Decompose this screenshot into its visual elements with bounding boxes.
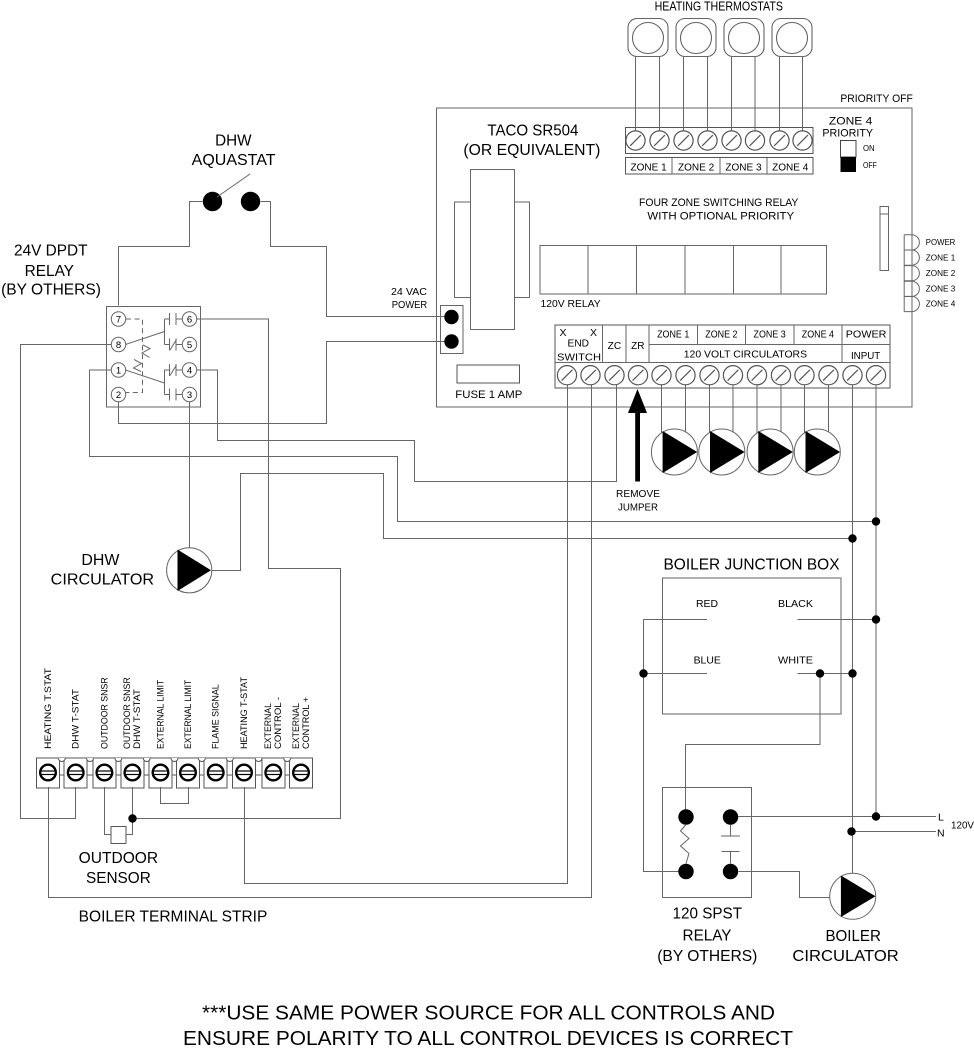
svg-text:POWER: POWER	[846, 329, 887, 340]
fuse F1 1 AMP	[457, 365, 520, 383]
DPDT relay pin 8	[111, 337, 125, 351]
svg-text:ON: ON	[863, 143, 875, 153]
DPDT relay coil actuator (dashed) pins 7-2	[126, 319, 143, 393]
svg-text:ZONE 2: ZONE 2	[678, 162, 715, 173]
24 VAC power terminal block	[441, 306, 464, 354]
wire junction dots	[128, 517, 880, 835]
zone 2 circulator pump	[699, 429, 745, 475]
svg-text:SWITCH: SWITCH	[557, 352, 601, 363]
zone 4 priority switch	[841, 141, 857, 173]
label REMOVE JUMPER	[616, 489, 660, 513]
DPDT relay contact to pin 5	[165, 339, 183, 351]
label TACO SR504 (OR EQUIVALENT)	[463, 122, 600, 158]
boiler circulator pump	[830, 873, 876, 919]
svg-text:POWER: POWER	[392, 300, 428, 311]
svg-text:(OR EQUIVALENT): (OR EQUIVALENT)	[463, 142, 600, 159]
wire: SPST relay to boiler circulator	[739, 872, 831, 898]
svg-text:DHW: DHW	[81, 552, 119, 569]
label DHW CIRCULATOR	[51, 552, 154, 588]
label 24V DPDT RELAY (BY OTHERS)	[1, 242, 101, 298]
svg-text:EXTERNAL LIMIT: EXTERNAL LIMIT	[156, 679, 166, 749]
wire: relay pin 1 to SR504 power input (hot)	[90, 370, 877, 522]
svg-text:ZONE 4: ZONE 4	[926, 300, 956, 309]
svg-text:PRIORITY: PRIORITY	[822, 127, 873, 139]
svg-text:SENSOR: SENSOR	[86, 870, 151, 887]
wire: power input L drop to boiler circulator	[852, 385, 854, 874]
SPST relay terminals	[678, 809, 693, 824]
wire: WHITE lead to SPST relay contact	[686, 674, 821, 811]
svg-text:EXTERNAL: EXTERNAL	[291, 703, 301, 749]
svg-text:ZC: ZC	[608, 340, 622, 352]
label FOUR ZONE SWITCHING RELAY	[639, 197, 799, 223]
svg-text:ZONE 4: ZONE 4	[829, 115, 873, 127]
wire: outdoor sensor right lead	[127, 787, 133, 835]
DPDT relay pin 5	[182, 337, 196, 351]
wire: DHW aquastat right pole to 24VAC + terminal	[261, 202, 446, 317]
svg-text:BLUE: BLUE	[694, 654, 721, 666]
DHW circulator pump	[167, 548, 212, 593]
DHW aquastat switch blade	[217, 174, 250, 197]
thermostat drop wires	[636, 57, 803, 140]
strip header labels	[557, 327, 886, 364]
label L N 120V	[937, 812, 974, 840]
svg-text:WITH OPTIONAL PRIORITY: WITH OPTIONAL PRIORITY	[647, 211, 794, 223]
svg-text:WHITE: WHITE	[778, 654, 813, 666]
svg-text:HEATING T.STAT: HEATING T.STAT	[43, 668, 53, 749]
transformer T1 (24VAC) wide winding	[455, 202, 530, 298]
svg-text:BOILER TERMINAL STRIP: BOILER TERMINAL STRIP	[79, 909, 268, 926]
edge connector	[880, 207, 889, 271]
heating thermostat 2	[676, 19, 716, 57]
DPDT relay armature springs	[142, 345, 150, 358]
svg-text:***USE SAME POWER SOURCE FOR A: ***USE SAME POWER SOURCE FOR ALL CONTROL…	[202, 1003, 775, 1025]
svg-text:OUTDOOR SNSR: OUTDOOR SNSR	[122, 677, 132, 749]
svg-text:POWER: POWER	[926, 238, 956, 247]
label 24 VAC POWER	[391, 287, 428, 311]
svg-text:OFF: OFF	[863, 160, 877, 170]
zone 3 circulator pump	[747, 429, 793, 475]
label 120 SPST RELAY (BY OTHERS)	[657, 906, 757, 965]
wire: boiler strip HEATING T-STAT to end switch X1	[245, 385, 568, 884]
SPST relay coil	[681, 825, 690, 864]
DPDT relay pin 1	[111, 363, 125, 377]
DPDT relay contact to pin 3	[165, 389, 183, 401]
wire: L feed line	[731, 816, 937, 818]
svg-text:6: 6	[187, 314, 192, 325]
wire: junction box WHITE lead	[798, 673, 853, 675]
wire: DHW circulator to SR504 power input (neutral)	[212, 474, 853, 571]
svg-text:AQUASTAT: AQUASTAT	[192, 152, 276, 169]
svg-text:ZONE 4: ZONE 4	[802, 329, 835, 340]
svg-text:OUTDOOR: OUTDOOR	[79, 850, 158, 867]
wire: DHW aquastat left pole to relay pin 7	[119, 202, 203, 306]
wire: power input N drop to L junction	[875, 385, 877, 817]
svg-text:EXTERNAL LIMIT: EXTERNAL LIMIT	[183, 679, 193, 749]
svg-text:2: 2	[116, 390, 121, 401]
svg-text:ZONE 2: ZONE 2	[926, 269, 956, 278]
svg-text:HEATING T-STAT: HEATING T-STAT	[239, 677, 249, 749]
bottom note	[183, 1003, 793, 1051]
LED ZONE 3	[904, 281, 919, 296]
LED labels	[926, 238, 956, 309]
24 VAC power terminals	[444, 310, 458, 324]
DPDT relay pin 7	[111, 312, 125, 326]
thermostat terminal strip (top)	[626, 128, 814, 154]
wire: jumper across EXTERNAL LIMIT terminals	[161, 787, 189, 804]
svg-text:120 VOLT CIRCULATORS: 120 VOLT CIRCULATORS	[684, 350, 807, 361]
DPDT relay pin 3	[182, 387, 196, 401]
svg-text:ZONE 1: ZONE 1	[657, 329, 690, 340]
svg-text:5: 5	[187, 340, 192, 351]
LED ZONE 4	[904, 296, 919, 311]
label ZONE 4 PRIORITY	[822, 115, 873, 139]
heating thermostat 1	[628, 19, 668, 57]
wire: relay pin 3 to DHW circulator	[189, 402, 191, 548]
svg-text:CIRCULATOR: CIRCULATOR	[51, 571, 154, 588]
wire: outdoor sensor left lead	[105, 787, 112, 835]
svg-text:REMOVE: REMOVE	[616, 489, 660, 500]
svg-text:FUSE 1 AMP: FUSE 1 AMP	[455, 389, 522, 401]
label OUTDOOR SENSOR	[79, 850, 158, 887]
zone circulator drop wires	[662, 385, 829, 445]
svg-text:ZONE 1: ZONE 1	[926, 254, 956, 263]
outdoor sensor	[111, 827, 126, 844]
svg-text:EXTERNAL: EXTERNAL	[263, 703, 273, 749]
indicator LED rail	[903, 235, 905, 312]
wire: relay pin 4 to SR504 ZC terminal	[197, 370, 617, 482]
svg-text:CONTROL -: CONTROL -	[273, 697, 283, 749]
svg-text:ZONE 3: ZONE 3	[926, 284, 956, 293]
label BOILER CIRCULATOR	[792, 928, 898, 965]
wire: junction box BLUE lead	[644, 673, 708, 675]
24V DPDT relay box	[107, 307, 201, 408]
boiler strip notches	[58, 758, 290, 762]
svg-text:120V: 120V	[951, 821, 974, 832]
svg-text:FOUR ZONE SWITCHING RELAY: FOUR ZONE SWITCHING RELAY	[639, 197, 799, 209]
DPDT relay pole 1 blade (pin 8)	[126, 319, 165, 345]
SPST relay contact	[721, 825, 740, 864]
svg-text:7: 7	[116, 314, 121, 325]
wire: 24VAC - terminal to relay pin 2	[119, 342, 446, 424]
svg-text:HEATING THERMOSTATS: HEATING THERMOSTATS	[655, 0, 783, 13]
svg-text:ZONE 4: ZONE 4	[772, 162, 809, 173]
svg-text:TACO SR504: TACO SR504	[487, 122, 578, 139]
svg-text:ZONE 1: ZONE 1	[631, 162, 668, 173]
svg-text:8: 8	[116, 340, 121, 351]
svg-text:ENSURE POLARITY TO ALL CONTROL: ENSURE POLARITY TO ALL CONTROL DEVICES I…	[183, 1028, 793, 1050]
top zone labels	[631, 162, 809, 173]
120V terminal strip of SR504	[555, 325, 890, 388]
boiler junction box	[663, 578, 842, 714]
svg-text:24 VAC: 24 VAC	[391, 287, 427, 298]
LED ZONE 1	[904, 250, 919, 265]
svg-text:ZONE 3: ZONE 3	[754, 329, 787, 340]
svg-text:CONTROL +: CONTROL +	[301, 697, 311, 749]
svg-text:4: 4	[187, 365, 192, 376]
svg-text:RELAY: RELAY	[683, 927, 732, 944]
heating thermostat 3	[724, 19, 764, 57]
120V relay bank	[540, 246, 827, 295]
svg-text:X: X	[590, 327, 597, 339]
SR504 terminal screws	[557, 366, 885, 385]
transformer T1 tall winding	[471, 170, 515, 330]
label DHW AQUASTAT	[192, 132, 276, 169]
svg-text:FLAME SIGNAL: FLAME SIGNAL	[211, 684, 221, 749]
DPDT relay pin 2	[111, 387, 125, 401]
svg-text:120V RELAY: 120V RELAY	[541, 299, 601, 310]
svg-text:RED: RED	[696, 598, 718, 610]
boiler terminal strip body	[39, 758, 310, 775]
boiler strip terminal labels	[43, 668, 53, 749]
DPDT relay pole 2 blade (pin 1)	[126, 370, 165, 395]
svg-text:ZR: ZR	[631, 340, 645, 352]
LED ZONE 2	[904, 266, 919, 281]
TACO SR504 enclosure box	[437, 108, 913, 407]
svg-text:BLACK: BLACK	[778, 598, 813, 610]
svg-text:DHW T-STAT: DHW T-STAT	[132, 689, 142, 749]
LED POWER	[904, 235, 919, 250]
svg-text:24V DPDT: 24V DPDT	[14, 242, 88, 259]
svg-text:L: L	[938, 812, 944, 824]
svg-text:X: X	[559, 327, 566, 339]
wire: junction box RED lead	[644, 619, 708, 621]
svg-text:INPUT: INPUT	[851, 351, 880, 362]
zone 4 circulator pump	[794, 429, 840, 475]
svg-text:BOILER JUNCTION BOX: BOILER JUNCTION BOX	[664, 556, 840, 573]
svg-text:ZONE 2: ZONE 2	[705, 329, 738, 340]
DPDT relay contact to pin 6	[165, 313, 183, 325]
svg-text:(BY OTHERS): (BY OTHERS)	[657, 948, 757, 965]
svg-text:1: 1	[116, 365, 121, 376]
wire: relay pin 6 to outdoor sensor junction	[133, 319, 341, 819]
DPDT relay contact to pin 4	[165, 364, 183, 376]
wire: junction box BLACK lead	[798, 619, 877, 621]
DPDT relay pin 6	[182, 312, 196, 326]
svg-text:JUMPER: JUMPER	[618, 502, 658, 513]
svg-text:120 SPST: 120 SPST	[673, 906, 743, 923]
svg-text:DHW T-STAT: DHW T-STAT	[71, 689, 81, 749]
REMOVE JUMPER arrow	[628, 389, 647, 482]
svg-text:BOILER: BOILER	[825, 928, 881, 945]
120 SPST relay box	[663, 788, 752, 898]
svg-text:DHW: DHW	[215, 132, 252, 149]
svg-text:N: N	[937, 828, 945, 840]
thermostat strip screws	[626, 131, 812, 150]
wire: relay pin 8 to boiler strip DHW T-STAT	[21, 345, 112, 819]
svg-text:3: 3	[187, 390, 192, 401]
wire: N feed line	[852, 831, 937, 833]
zone 1 circulator pump	[651, 429, 697, 475]
DHW aquastat contact poles	[203, 192, 222, 211]
wire: RED/BLUE to SPST relay contact	[644, 620, 679, 872]
junction box wire labels	[694, 598, 813, 666]
svg-text:ZONE 3: ZONE 3	[725, 162, 762, 173]
svg-text:OUTDOOR SNSR: OUTDOOR SNSR	[99, 677, 109, 749]
heating thermostat 4	[772, 19, 812, 57]
zone label strip (top)	[626, 158, 814, 175]
svg-text:CIRCULATOR: CIRCULATOR	[792, 948, 898, 965]
svg-text:PRIORITY OFF: PRIORITY OFF	[840, 93, 913, 105]
boiler terminal strip screws	[40, 765, 309, 781]
svg-text:RELAY: RELAY	[25, 263, 74, 280]
DPDT relay pin 4	[182, 363, 196, 377]
svg-text:END: END	[568, 338, 590, 349]
wire: boiler strip HEATING T.STAT to end switch X2	[49, 385, 592, 898]
svg-text:(BY OTHERS): (BY OTHERS)	[1, 282, 101, 299]
